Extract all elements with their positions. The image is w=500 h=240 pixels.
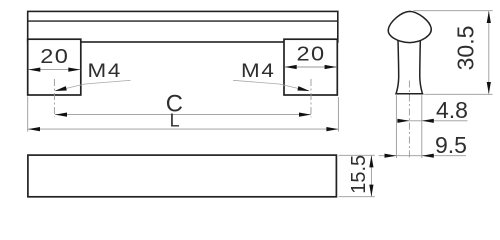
right extension line for L [337,97,339,132]
dimension 4.8 arrow right [422,119,434,123]
right post box [284,39,337,95]
svg-text:M4: M4 [88,61,123,82]
dimension 30.5 arrow top [487,11,491,23]
bar top view rectangle [28,155,337,197]
dimension 15.5 arrow bottom [369,185,373,197]
dimension 9.5 line [379,155,467,157]
svg-text:4.8: 4.8 [436,97,468,123]
left extension line for 9.5 [395,95,397,158]
dimension L arrow right [326,127,338,131]
dimension 9.5 arrow left [385,154,397,158]
label M4 right leader arrowhead [297,86,310,93]
right extension line for 4.8 and 9.5 [421,95,423,158]
dimension 20 right arrow right [325,65,337,69]
dimension L arrow left [28,127,40,131]
dimension 4.8 arrow left [397,119,409,123]
dimension 15.5 bottom extension line [339,196,375,198]
svg-text:9.5: 9.5 [435,132,467,158]
knob stem side view [396,36,423,94]
dimension 20 right arrow left [285,65,297,69]
dimension 30.5 line [488,11,490,94]
handle bar front view outline [28,11,338,42]
knob cap side view [388,11,431,42]
svg-text:M4: M4 [241,61,276,82]
dimension 30.5 top extension line [414,10,493,12]
label M4 left leader arrowhead [54,86,67,93]
dimension C arrow left [55,113,67,117]
dimension 9.5 arrow right [422,154,434,158]
right screw centerline [310,79,312,117]
left screw centerline [53,79,55,117]
dimension 20 left line [28,69,80,71]
label M4 right leader line [233,80,309,91]
dimension 4.8 line [397,120,468,122]
dimension 30.5 bottom extension line [424,93,492,95]
dimension 15.5 line [370,156,372,197]
svg-text:20: 20 [297,42,326,65]
bar inner edge line [28,20,338,22]
dimension 20 right line [285,66,336,68]
left post box [28,39,81,95]
svg-text:L: L [170,111,180,131]
dimension 20 left arrow left [28,68,40,72]
svg-text:20: 20 [40,44,69,67]
dimension C arrow right [299,113,311,117]
svg-text:30.5: 30.5 [452,26,478,71]
svg-text:15.5: 15.5 [348,155,370,194]
left extension line for L [27,97,29,132]
dimension L line [28,128,339,130]
dimension 15.5 top extension line [339,154,375,156]
dimension C line [55,114,311,116]
dimension 20 left arrow right [68,68,80,72]
label M4 left leader line [56,80,131,91]
dimension 15.5 arrow top [369,155,373,167]
knob centerline [408,81,410,158]
dimension 30.5 arrow bottom [487,82,491,94]
